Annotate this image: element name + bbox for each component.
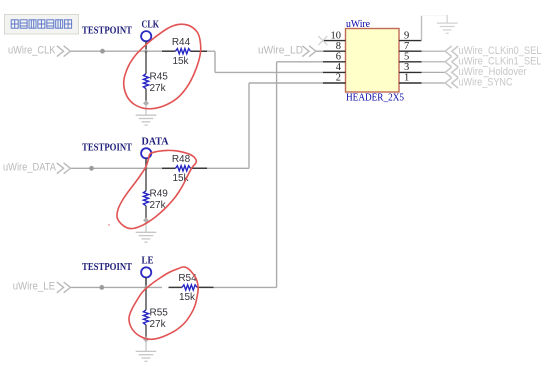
resistor R44 zigzag body [176, 49, 191, 54]
svg-text:27k: 27k [150, 83, 167, 94]
resistor R54 lead right [197, 286, 214, 288]
resistor R48 lead left [162, 167, 176, 169]
connector U? HEADER_2X5 body [346, 29, 400, 93]
pin 8 stub [323, 50, 346, 52]
pin 6 stub [323, 61, 346, 63]
red annotation loop around R54/R55 [129, 267, 198, 339]
pin 10 stub [323, 40, 346, 42]
port uWire_CLKin0_SEL [422, 45, 542, 57]
wire from testpoint DATA down to net [145, 158, 147, 168]
svg-text:R45: R45 [150, 71, 169, 82]
resistor R45 lead top [145, 51, 147, 73]
pin 1 stub [399, 82, 422, 84]
port uWire_SYNC [422, 77, 513, 89]
pin 5 stub [399, 61, 422, 63]
wire pin9 to ground [422, 15, 448, 17]
pin 2 stub [323, 82, 346, 84]
svg-text:1: 1 [404, 73, 409, 84]
testpoint circle LE [141, 267, 151, 277]
wire R48 to pin2: vertical [248, 83, 250, 168]
pin 4 stub [323, 71, 346, 73]
svg-text:7: 7 [404, 41, 409, 52]
svg-text:DATA: DATA [142, 137, 169, 148]
resistor R49 zigzag body [143, 191, 148, 206]
junction at testpoint CLK [144, 49, 149, 54]
wire R54 to pin6: horizontal [277, 61, 324, 63]
ground symbol [136, 106, 157, 125]
svg-text:6: 6 [336, 52, 341, 63]
wire R44 to pin4: horizontal [215, 71, 324, 73]
resistor R49 lead top [145, 168, 147, 191]
port uWire_Holdover [422, 66, 527, 78]
resistor R45 lead bottom [145, 89, 147, 104]
resistor R54 zigzag body [182, 285, 197, 290]
svg-text:4: 4 [336, 62, 342, 73]
wire R44 to pin4: horiz stub [207, 50, 215, 52]
wire DATA net horizontal [71, 167, 162, 169]
resistor R55 zigzag body [143, 310, 148, 325]
svg-text:R49: R49 [150, 189, 169, 200]
ground symbol [136, 342, 157, 361]
junction dot on DATA wire [89, 166, 94, 171]
junction dot on CLK wire [100, 49, 105, 54]
wire R54 to pin6: horiz [214, 286, 277, 288]
resistor R48 lead right [191, 167, 208, 169]
port uWire_DATA [3, 161, 70, 173]
svg-text:R44: R44 [172, 37, 191, 48]
svg-text:3: 3 [404, 62, 409, 73]
resistor R44 lead left [162, 50, 176, 52]
svg-text:R48: R48 [172, 154, 191, 165]
svg-text:5: 5 [404, 52, 409, 63]
junction at R45 resistor bottom [143, 100, 149, 106]
ground (top right) [437, 15, 458, 33]
resistor R48 zigzag body [176, 166, 191, 171]
svg-text:HEADER_2X5: HEADER_2X5 [346, 93, 404, 104]
resistor R55 lead top [145, 287, 147, 310]
testpoint circle CLK [141, 31, 151, 41]
svg-text:27k: 27k [150, 319, 167, 330]
wire R48 to pin2: horizontal [249, 82, 324, 84]
svg-text:TESTPOINT: TESTPOINT [82, 262, 132, 273]
svg-text:9: 9 [404, 30, 409, 41]
wire CLK net horizontal [71, 50, 162, 52]
svg-text:uWire_DATA: uWire_DATA [3, 161, 57, 173]
svg-text:TESTPOINT: TESTPOINT [82, 26, 132, 37]
resistor R44 lead right [191, 50, 208, 52]
svg-text:15k: 15k [172, 56, 189, 67]
svg-text:2: 2 [336, 73, 341, 84]
wire R44 to pin4: vertical [214, 51, 216, 72]
wire R48 to pin2: horiz [207, 167, 249, 169]
svg-text:R55: R55 [150, 308, 169, 319]
svg-text:uWire_CLK: uWire_CLK [8, 44, 56, 56]
resistor R54 lead left [169, 286, 183, 288]
resistor R45 zigzag body [143, 74, 148, 89]
wire pin9 up [421, 16, 423, 41]
svg-text:CLK: CLK [142, 19, 160, 30]
no-ERC marker at pin 10 [318, 36, 327, 45]
resistor R55 lead bottom [145, 325, 147, 340]
save-to-netease button [5, 15, 79, 35]
pin 7 stub [399, 50, 422, 52]
junction dot on LE wire [99, 285, 104, 290]
port uWire_CLKin1_SEL [422, 55, 542, 67]
svg-text:TESTPOINT: TESTPOINT [82, 143, 132, 154]
svg-text:LE: LE [142, 256, 154, 267]
junction at R55 resistor bottom [143, 336, 149, 342]
pin 3 stub [399, 71, 422, 73]
svg-text:uWire_LD: uWire_LD [258, 44, 303, 56]
port uWire_LE [13, 281, 71, 293]
junction at testpoint DATA [144, 166, 149, 171]
junction at testpoint LE [144, 285, 149, 290]
wire LE net horizontal [71, 286, 162, 288]
wire from testpoint CLK down to net [145, 41, 147, 51]
svg-text:uWire: uWire [346, 19, 370, 30]
red annotation loop around R48/R49 [117, 150, 196, 228]
ground symbol [136, 223, 157, 242]
junction at R49 resistor bottom [143, 217, 149, 223]
port uWire_CLK [8, 44, 70, 56]
port uWire_LD [258, 44, 324, 56]
resistor R49 lead bottom [145, 206, 147, 221]
svg-text:15k: 15k [179, 292, 196, 303]
testpoint circle DATA [141, 148, 151, 158]
svg-text:uWire_SYNC: uWire_SYNC [459, 77, 513, 89]
svg-text:8: 8 [336, 41, 341, 52]
red annotation loop around R44/R45 [124, 24, 201, 109]
svg-text:uWire_LE: uWire_LE [13, 281, 55, 293]
svg-text:10: 10 [331, 30, 342, 41]
wire R54 to pin6: vertical [276, 62, 278, 288]
red pen speck [108, 224, 110, 226]
pin 9 stub [399, 40, 422, 42]
wire from testpoint LE down to net [145, 278, 147, 288]
